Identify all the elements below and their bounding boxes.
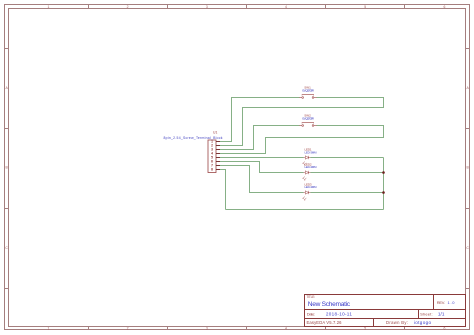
svg-text:8: 8 bbox=[211, 168, 213, 172]
wire bottom return bbox=[226, 209, 384, 211]
junction dot LED2 bus bbox=[382, 171, 385, 174]
svg-text:REV.: REV. bbox=[437, 300, 445, 305]
title block table lines bbox=[305, 295, 466, 327]
frame row letters right bbox=[466, 86, 469, 250]
wire pin7 to LED3 anode bbox=[220, 166, 304, 193]
wire pin6 to LED2 anode bbox=[220, 162, 304, 173]
frame ticks left bbox=[5, 49, 9, 289]
LED LED3 symbol bbox=[303, 191, 310, 200]
frame row letters left bbox=[5, 86, 8, 250]
svg-text:C: C bbox=[5, 246, 8, 250]
junction dot LED3 bus bbox=[382, 191, 385, 194]
svg-text:8pin_2.54_Screw_Terminal_Block: 8pin_2.54_Screw_Terminal_Block bbox=[164, 136, 223, 140]
wire LED3 cathode to right bus bbox=[311, 192, 384, 194]
terminal block U1 pin numbers 1-8 bbox=[211, 140, 213, 172]
svg-text:2: 2 bbox=[127, 326, 129, 330]
svg-text:2018-10-11: 2018-10-11 bbox=[326, 312, 352, 317]
svg-text:3: 3 bbox=[206, 5, 208, 9]
svg-text:LED-3MM: LED-3MM bbox=[305, 185, 318, 189]
LED LED3 emission arrowheads bbox=[303, 198, 306, 201]
svg-text:1: 1 bbox=[47, 5, 49, 9]
svg-text:5: 5 bbox=[364, 5, 366, 9]
svg-text:2: 2 bbox=[127, 5, 129, 9]
wire pin8 down to bottom return bbox=[220, 170, 226, 210]
LED LED2 emission arrowheads bbox=[303, 178, 306, 181]
svg-text:1: 1 bbox=[47, 326, 49, 330]
switch SW1 symbol bbox=[299, 95, 316, 99]
frame column digits bottom bbox=[47, 326, 445, 330]
wire right bus vertical bbox=[383, 158, 385, 210]
svg-text:LED-3MM: LED-3MM bbox=[305, 165, 318, 169]
wire LED1 cathode to right bus bbox=[311, 157, 384, 159]
svg-text:U1: U1 bbox=[213, 131, 217, 135]
svg-text:EVQ22705R: EVQ22705R bbox=[302, 117, 314, 121]
svg-text:4: 4 bbox=[285, 5, 287, 9]
svg-text:New Schematic: New Schematic bbox=[308, 301, 351, 308]
svg-text:1.0: 1.0 bbox=[448, 300, 456, 305]
switch SW2 symbol bbox=[299, 123, 316, 127]
frame ticks right bbox=[466, 49, 470, 289]
svg-text:C: C bbox=[466, 246, 469, 250]
terminal block U1 body bbox=[208, 140, 216, 173]
svg-text:6: 6 bbox=[443, 5, 445, 9]
svg-text:Date:: Date: bbox=[307, 312, 315, 317]
frame ticks top bbox=[89, 5, 405, 9]
svg-text:EVQ22705R: EVQ22705R bbox=[302, 89, 314, 93]
wire pin3 to SW2 left bbox=[220, 126, 300, 150]
LED LED1 emission arrowheads bbox=[303, 163, 306, 166]
svg-text:1/1: 1/1 bbox=[438, 312, 445, 317]
svg-text:EasyEDA V5.7.26: EasyEDA V5.7.26 bbox=[307, 320, 343, 325]
LED LED2 symbol bbox=[303, 171, 310, 180]
svg-text:3: 3 bbox=[206, 326, 208, 330]
svg-text:Sheet:: Sheet: bbox=[420, 312, 433, 317]
svg-text:4: 4 bbox=[285, 326, 287, 330]
frame column digits top bbox=[47, 5, 445, 9]
svg-text:LED-3MM: LED-3MM bbox=[305, 150, 318, 154]
svg-text:iotgogo: iotgogo bbox=[414, 320, 432, 325]
svg-text:Drawn By:: Drawn By: bbox=[386, 320, 408, 325]
wire LED2 cathode to right bus bbox=[311, 172, 384, 174]
svg-text:TITLE:: TITLE: bbox=[307, 295, 316, 299]
wire pin5 to LED1 anode bbox=[220, 157, 304, 159]
wire SW1 right to pin2 bbox=[220, 98, 384, 146]
wire SW2 right to pin4 bbox=[220, 126, 384, 154]
terminal block U1 pins bbox=[216, 142, 220, 170]
frame ticks bottom bbox=[89, 327, 405, 330]
LED LED1 symbol bbox=[303, 156, 310, 165]
wire pin1 to SW1 left bbox=[220, 98, 300, 142]
